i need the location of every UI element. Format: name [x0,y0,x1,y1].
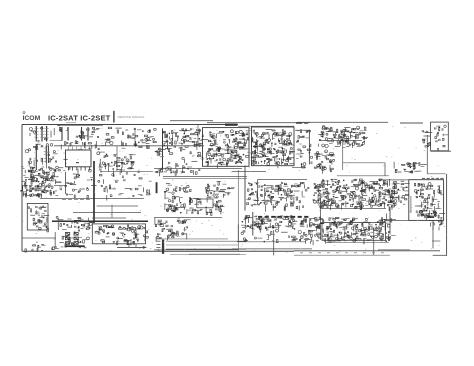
wire (IF system) [333,234,339,236]
resistor R342 (IF system) [316,226,319,227]
resistor R435 (discriminator band) [337,187,338,190]
capacitor C229 (IF system) [299,239,301,240]
wire (discriminator band) [331,178,338,180]
wire (modulator stage lower) [182,168,184,172]
bus wire y176 [163,176,247,178]
capacitor C43 (RF amp section) [42,191,43,193]
value label (detector stage) [290,218,294,221]
transistor Q40 (buffer stage) [112,174,114,176]
value label (PLL unit parts) [239,134,242,137]
divider wire y179 mid [258,178,307,180]
wire (discriminator band) [389,179,391,186]
wire (discriminator band) [317,194,319,200]
resistor R228 (osc buffer) [326,158,328,160]
transistor Q74 (VCO unit parts) [268,139,271,142]
resistor R334 (detector stage lower) [294,238,297,239]
value label (detector stage lower) [258,237,263,240]
value label (IF system) [305,239,307,242]
value label (discriminator band) [317,183,320,186]
resistor R423 (discriminator band) [359,182,361,186]
wire (detector stage) [259,228,261,232]
transistor Q21 (mixer stage) [126,159,129,162]
resistor R12 (top strip parts) [154,129,156,131]
wire (reference oscillator) [353,132,358,134]
capacitor C264 (discriminator band) [348,187,350,188]
value label (IF system) [300,223,304,226]
value label (VCO unit parts) [266,158,270,161]
wire (IF system) [384,224,386,230]
wire (discriminator band) [317,188,320,190]
wire (reference oscillator) [345,128,347,131]
value label (RF amp section) [33,187,37,190]
resistor R95 (modulator stage upper) [190,134,194,135]
capacitor C75 (modulator stage upper) [187,140,188,142]
value label (mic amplifier) [165,197,169,200]
wire (discriminator band) [388,202,391,204]
resistor R219 (osc buffer) [319,164,321,165]
wire (modulator stage upper) [172,134,174,141]
resistor R153 (PLL unit parts) [211,156,215,157]
transistor Q122 (control logic) [87,227,89,229]
resistor R238 (antenna switch parts) [443,145,445,147]
coil link wire [50,140,63,142]
wire (mic amplifier) [184,207,186,210]
value label (reference oscillator) [348,137,350,140]
audio bus y212 [73,212,141,214]
resistor R314 (squelch circuit) [177,233,179,236]
transistor Q42 (modulator stage upper) [165,135,167,137]
diode D118 (mic amplifier) [180,212,181,213]
capacitor C147 (antenna switch parts) [438,126,440,127]
transistor Q56 (PLL unit parts) [230,130,233,133]
transistor Q27 (RF amp section) [44,190,47,193]
wire (RF amp section) [28,179,31,181]
resistor R245 (drive stage) [408,163,410,167]
resistor R41 (mixer stage) [117,158,120,159]
diode D31 (RF amp section) [52,178,53,179]
resistor R59 (RF amp section) [26,194,27,197]
value label (modulator stage upper) [196,143,200,146]
capacitor C132 (reference oscillator) [341,139,343,140]
value label (detector stage) [274,226,277,229]
wire (reference oscillator) [350,132,352,139]
transistor Q163 (detector stage) [289,220,291,222]
divider wire x257 mid [257,179,259,205]
resistor R136 (PLL unit parts) [240,157,241,160]
resistor R9 (front-end filters) [84,143,85,145]
resistor R30 (top strip parts) [122,132,123,135]
value label (antenna switch parts) [436,125,439,128]
wire (discriminator band) [362,189,367,191]
capacitor C137 (osc buffer) [331,170,332,172]
value label (mic amplifier) [192,212,194,215]
wire (VCO unit parts) [282,155,284,162]
capacitor C17 (front-end lower) [29,158,31,159]
wire (IF system) [369,228,374,230]
resistor R91 (buffer stage) [139,178,142,179]
resistor R307 (squelch circuit) [179,221,180,224]
wire (modulator stage lower) [164,171,167,173]
diode D17 (RF amp section) [25,182,26,183]
resistor R419 (discriminator band) [355,196,356,199]
wire (VCO unit parts) [256,142,258,147]
resistor R107 (modulator stage upper) [199,130,201,131]
resistor R110 (modulator stage mid) [180,148,182,151]
wire (VCO unit parts) [255,149,257,153]
top wire bus a [170,120,213,122]
value label (PLL unit parts) [223,163,226,166]
wire (VCO unit parts) [267,162,270,164]
value label (VCO unit parts) [269,159,273,162]
value label (reference oscillator) [328,139,331,142]
capacitor C133 (reference oscillator) [361,144,363,145]
transistor Q101 (reference oscillator) [322,127,325,130]
transistor Q45 (modulator stage upper) [194,144,196,146]
wire (mic amplifier) [206,196,208,202]
resistor R84 (PLL support) [87,195,88,198]
diode D71 (VCO unit parts) [261,145,262,146]
capacitor C145 (antenna switch parts) [436,140,437,142]
wire (discriminator band) [364,189,366,193]
wire (RF amp section) [29,178,35,180]
transistor Q46 (modulator stage upper) [162,141,165,144]
diode D67 (PLL unit parts) [219,149,220,150]
wire (RF amp section) [41,181,43,186]
value label (reference oscillator) [360,129,364,132]
diode D18 (RF amp section) [32,170,33,171]
capacitor C153 (antenna relay parts) [426,131,428,132]
diode D101 (audio PA parts) [36,223,37,224]
wire (RF amp section) [24,170,26,173]
diode D55 (PLL unit parts) [226,163,227,164]
transistor Q55 (PLL unit parts) [224,141,226,143]
diode D84 (VCO unit parts) [276,151,277,152]
resistor R367 (IF system) [368,226,369,228]
diode D80 (VCO unit parts) [271,143,272,144]
wire (tone unit parts) [98,226,102,228]
wire (top strip parts) [91,145,93,149]
wire (osc buffer) [328,155,333,157]
diode D163 (discriminator band) [333,196,334,197]
resistor R175 (VCO unit parts) [254,158,256,161]
resistor R298 (mic amplifier) [189,201,190,204]
capacitor C45 (PLL support) [70,183,72,184]
diode D137 (detector stage) [261,220,262,221]
resistor R21 (top strip parts) [139,146,142,147]
wire (mic amplifier) [193,198,197,200]
wire (top strip parts) [95,141,97,148]
value label (discriminator band) [335,196,339,199]
wire (modulator stage mid) [159,151,161,156]
wire y167 seg [292,167,306,169]
diode D102 (audio PA parts) [42,206,43,207]
wire (tone unit parts) [108,226,114,228]
value label (VCO unit parts) [253,131,256,134]
value label (drive stage) [419,170,421,173]
diode D135 (detector stage) [258,218,259,219]
capacitor C227 (IF system) [318,235,319,237]
value label (RF amp section) [50,185,52,188]
wire (VCO unit parts) [271,144,273,147]
transistor Q114 (osc buffer) [324,167,327,170]
wire (squelch circuit) [155,237,157,242]
value label (front-end lower) [34,157,37,160]
transistor Q57 (PLL unit parts) [210,143,213,146]
resistor R212 (reference oscillator) [337,141,340,142]
resistor R183 (VCO unit parts) [272,130,275,131]
wire (front-end filters) [53,128,55,135]
transistor Q86 (VCO unit parts) [269,148,271,150]
resistor R257 (control logic) [78,217,81,218]
vertical wire x433 [432,226,434,248]
diode D167 (discriminator band) [346,184,347,185]
value label (front-end lower) [53,152,58,155]
wire (RF amp section) [23,185,28,187]
bottom bus right [294,250,440,252]
wire (reference oscillator) [344,131,349,133]
diode D97 (osc buffer) [320,168,321,169]
wire (PLL support) [70,184,76,186]
wire (APC circuit) [414,170,421,172]
wire (IF system) [324,239,326,242]
capacitor C11 (top strip parts) [97,137,99,138]
value label (antenna relay parts) [423,131,427,134]
resistor R352 (IF system) [380,223,383,224]
wire (reference oscillator) [344,127,350,129]
wire (detector stage) [244,218,247,220]
transistor Q130 (tone unit parts) [106,226,108,228]
IC U1 label [76,162,79,163]
resistor R383 (IF system) [302,222,303,225]
value label (discriminator band) [369,184,372,187]
antenna feed wire x136 [135,244,137,248]
wire y185 left [54,184,67,186]
value label (PLL unit parts) [244,148,249,151]
capacitor C13 (top strip parts) [125,144,127,145]
wire (discriminator band) [389,197,391,203]
wire (PLL unit parts) [209,131,211,137]
wire (IF system) [380,227,382,232]
wire (IF system) [337,240,340,242]
diode D172 (discriminator band) [393,183,394,184]
diode D26 (RF amp section) [48,174,49,175]
PA dark bar [427,216,434,218]
capacitor C210 (detector stage) [267,220,269,221]
vertical wire x117 [116,146,118,171]
capacitor C128 (reference oscillator) [338,143,339,145]
transistor Q125 (tone unit parts) [113,232,115,234]
diode D1 (top strip parts) [79,135,80,136]
wire (discriminator band) [346,190,348,193]
wire (PLL support) [73,173,76,175]
value label (VCO unit parts) [280,138,284,141]
diode D114 (mic amplifier) [196,204,197,205]
resistor R144 (PLL unit parts) [238,142,241,143]
capacitor C143 (APC circuit) [412,164,414,165]
resistor R152 (PLL unit parts) [218,154,221,156]
resistor R433 (discriminator band) [345,188,347,189]
resistor R52 (RF amp section) [25,183,26,186]
wire y219 cross [382,218,396,220]
resistor R429 (discriminator band) [362,191,363,195]
capacitor C168 (control logic) [71,222,73,223]
capacitor C167 (control logic) [75,226,76,228]
wire (mixer stage) [117,160,120,162]
capacitor C85 (modulator stage lower) [176,163,177,165]
wire (PLL unit parts) [233,145,235,149]
value label (discriminator band) [374,201,376,204]
wire (IF system) [330,238,332,243]
diode D160 (IF system) [308,230,309,231]
wire (VCO unit parts) [274,132,279,134]
wire (VCO unit parts) [253,146,258,148]
resistor R349 (IF system) [331,234,332,237]
value label (IF system) [308,233,310,236]
wire (squelch circuit) [186,233,188,239]
resistor R266 (control logic lower) [69,240,70,243]
capacitor C32 (RF amp section) [42,177,43,179]
diode D110 (tone unit parts) [133,242,134,243]
resistor R18 (top strip parts) [108,127,111,129]
capacitor C41 (RF amp section) [38,196,39,198]
wire (modulator stage lower) [158,172,160,176]
value label (RF amp section) [32,176,36,179]
capacitor C57 (buffer stage) [105,187,107,188]
mic bus y206 [97,205,138,207]
choke bar x156 [156,182,158,193]
transistor Q184 (IF system) [313,224,315,226]
diode D140 (IF system) [327,235,328,236]
wire (discriminator band) [383,183,387,185]
resistor R222 (osc buffer) [322,166,325,168]
wire (front-end filters) [60,145,62,150]
value label (top strip parts) [78,148,83,151]
value label (tone unit parts) [116,240,119,243]
value label (PLL unit parts) [242,134,246,137]
diode D68 (VCO unit parts) [255,144,256,145]
diode D157 (IF system) [373,230,374,231]
diode D83 (VCO unit parts) [282,148,283,149]
capacitor C206 (detector stage) [254,225,256,226]
vertical wire x94 (PTT line) [93,161,95,223]
wire (detector stage) [247,225,252,227]
capacitor C105 (VCO unit parts) [282,132,284,133]
diode D38 (modulator stage upper) [185,130,186,131]
resistor R208 (reference oscillator) [353,128,356,130]
transistor Q115 (APC circuit) [407,163,409,165]
value label (front-end filters) [81,137,85,140]
value label (modulator stage upper) [189,138,192,141]
capacitor C39 (RF amp section) [40,188,41,190]
value label (front-end filters) [66,129,69,132]
resistor R233 (APC circuit) [419,163,420,166]
transistor Q62 (PLL unit parts) [242,133,244,135]
capacitor C209 (detector stage) [275,219,276,221]
resistor R363 (IF system) [310,231,312,232]
wire (VCO unit parts) [259,153,262,155]
value label (discriminator band) [366,200,370,203]
resistor R163 (VCO unit parts) [287,141,290,143]
transistor Q39 (buffer stage) [110,195,112,197]
transistor Q170 (IF system) [344,219,346,221]
wire (mixer stage) [119,170,121,175]
wire (VCO unit parts) [288,156,290,163]
value label (front-end lower) [40,146,43,149]
resistor R68 (RF amp section) [50,190,51,193]
wire (PLL unit parts) [227,143,229,146]
value label (PLL unit parts) [214,160,216,163]
resistor R186 (VCO unit parts) [285,163,288,164]
transistor Q87 (VCO unit parts) [261,134,263,136]
value label (mic amplifier) [165,203,167,206]
transistor Q180 (IF system) [348,235,350,237]
diode D7 (front-end lower) [37,146,38,147]
resistor R106 (modulator stage upper) [184,140,186,142]
value label (mixer stage) [130,160,133,163]
resistor R258 (control logic) [90,221,94,222]
capacitor C243 (IF system) [380,228,382,229]
resistor R292 (mic amplifier) [206,212,207,215]
transistor Q128 (tone unit parts) [98,232,100,234]
transistor Q63 (PLL unit parts) [239,130,242,133]
wire (mixer stage) [116,161,120,163]
resistor R409 (discriminator band) [323,192,325,193]
transistor Q168 (detector stage lower) [276,229,279,232]
capacitor C270 (discriminator band) [323,180,325,181]
wire (PLL support) [68,182,74,184]
wire (IF system) [361,228,363,234]
diode D123 (squelch circuit) [160,223,161,224]
resistor R147 (PLL unit parts) [237,161,241,162]
value label (IF system) [368,224,372,227]
diode D133 (detector stage) [251,228,252,229]
value label (RF amp section) [21,167,24,170]
resistor R439 (discriminator band) [361,197,363,198]
IC U1 pins [68,167,89,171]
transistor Q13 (front-end lower) [25,150,28,153]
resistor R384 (IF system) [350,221,352,224]
capacitor C258 (discriminator band) [379,180,381,181]
wire (buffer stage) [102,179,104,184]
transistor Q1 (front-end filters) [33,131,35,133]
wire (modulator stage upper) [167,146,169,150]
capacitor C76 (modulator stage upper) [182,128,183,130]
resistor R72 (RF amp section) [32,180,34,181]
value label (discriminator band) [357,195,360,198]
capacitor C113 (VCO unit parts) [255,143,257,144]
value label (RF amp section) [24,190,27,193]
wire (IF system) [346,224,348,230]
wire (IF system) [381,236,383,242]
diode D21 (RF amp section) [51,188,52,189]
capacitor C216 (IF system) [379,220,380,222]
resistor R71 (RF amp section) [43,171,44,174]
resistor R302 (mic amplifier) [189,198,190,201]
transistor Q176 (IF system) [365,218,367,220]
capacitor C169 (control logic) [78,230,79,232]
value label (reference oscillator) [335,137,338,140]
resistor R280 (tone unit parts) [135,231,137,233]
resistor R418 (discriminator band) [359,179,362,181]
transistor Q183 (IF system) [358,229,361,232]
value label (audio PA parts) [36,211,39,214]
resistor R437 (discriminator band) [327,202,329,205]
squelch wire y217 [154,217,222,219]
diode D78 (VCO unit parts) [279,158,280,159]
value label (detector stage) [266,214,268,217]
capacitor C215 (IF system) [382,237,383,239]
resistor R417 (discriminator band) [382,202,383,204]
